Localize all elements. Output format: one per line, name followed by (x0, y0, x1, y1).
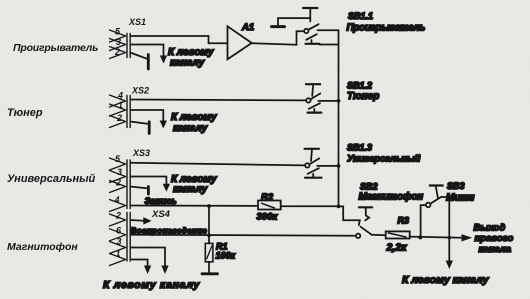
wire XS4 pin6 (Воспроизведение line) to SB2 (130, 234, 356, 237)
svg-text:R2: R2 (261, 192, 274, 203)
wire R1 bottom (208, 262, 210, 273)
svg-text:4: 4 (117, 91, 123, 101)
svg-text:2: 2 (115, 211, 121, 221)
node label К левому каналу (XS1) (168, 47, 214, 69)
wire SB3 arm to left-channel drop (442, 197, 453, 268)
svg-text:4: 4 (114, 195, 120, 205)
svg-text:К левому: К левому (168, 47, 214, 58)
svg-text:XS2: XS2 (131, 86, 149, 96)
node label Воспроизведение (131, 227, 208, 236)
value 2,2к (386, 242, 408, 254)
value 100к (216, 251, 236, 261)
node label Тюнер (SB1.2) (347, 91, 379, 102)
svg-text:SB3: SB3 (447, 181, 465, 191)
connector XS3 (110, 158, 131, 212)
pin 2 (XS3) (115, 178, 121, 188)
svg-text:Выход: Выход (474, 223, 506, 234)
pin 5 (XS3) (115, 154, 121, 164)
connector XS4 (110, 213, 131, 266)
wire R3 to output arrow (410, 235, 471, 241)
pin 2 (XS1) (114, 47, 120, 57)
switch SB3 (426, 186, 443, 208)
node label Магнитофон (7, 241, 78, 253)
svg-text:SB1.1: SB1.1 (348, 11, 373, 21)
svg-text:К левому каналу: К левому каналу (103, 279, 200, 291)
pin 2 (XS4) (115, 211, 121, 221)
switch SB1.1 (303, 8, 320, 44)
resistor R3 (386, 231, 410, 238)
svg-text:100к: 100к (216, 251, 236, 261)
svg-text:Универсальный: Универсальный (347, 154, 421, 165)
svg-text:каналу: каналу (173, 123, 208, 134)
svg-text:2: 2 (115, 178, 121, 188)
wire R2 to bus junction (281, 205, 339, 207)
node label К левому каналу (XS4) (103, 279, 200, 291)
svg-text:SB1.3: SB1.3 (347, 143, 372, 153)
svg-text:Проигрыватель: Проигрыватель (13, 42, 98, 54)
svg-text:R3: R3 (398, 216, 410, 226)
svg-text:К левому: К левому (171, 112, 217, 123)
svg-text:XS3: XS3 (132, 148, 150, 158)
node junction (bus/Запись) (337, 205, 341, 209)
svg-text:каналу: каналу (170, 58, 205, 69)
wire A1 output to SB1.1 (252, 31, 304, 44)
pin 1 (XS2) (118, 100, 123, 110)
switch label SB2 (360, 182, 378, 192)
wire bus to SB2 upper contact (339, 206, 361, 225)
svg-text:SB2: SB2 (360, 182, 378, 192)
value 390к (257, 212, 279, 223)
node junction (Запись/R1) (207, 204, 211, 208)
svg-text:Магнитофон: Магнитофон (7, 241, 78, 253)
connector label XS4 (151, 209, 171, 220)
node junction (Воспроизведение/R1) (207, 233, 211, 237)
pin 4 (XS2) (117, 91, 123, 101)
switch SB2 (356, 207, 372, 238)
ground (chassis XS2) (148, 122, 151, 134)
wire SB1.1 output (318, 30, 339, 44)
label R2 (261, 192, 274, 203)
svg-text:3: 3 (116, 37, 121, 47)
ground (R1) (202, 272, 218, 275)
wire XS4 pin2 arrow (130, 218, 150, 224)
node label Запись (145, 196, 177, 206)
svg-text:Тюнер: Тюнер (7, 107, 43, 119)
connector label XS3 (132, 148, 150, 158)
node label Универсальный (SB1.3) (347, 154, 421, 165)
label R3 (398, 216, 410, 226)
wire XS2 pin2 to chassis (130, 122, 147, 124)
node junction (bus/SB1.2) (337, 99, 341, 103)
pin 6 (XS4) (116, 226, 122, 236)
pin 3 (XS1) (116, 37, 121, 47)
wire bus (switch outputs) (338, 30, 340, 206)
svg-text:Тюнер: Тюнер (347, 91, 379, 102)
wire XS4 pin1 to left channel (130, 260, 150, 273)
switch label SB1.1 (348, 11, 373, 21)
wire R1 top (208, 206, 210, 243)
connector label XS1 (128, 17, 146, 27)
label R1 (216, 242, 228, 252)
node label Проигрыватель (13, 42, 98, 54)
node label Проигрыватель (SB1.1) (347, 23, 426, 34)
resistor R1 (205, 243, 213, 261)
wire SB1.2 output (318, 100, 338, 102)
pin 3 (XS3) (117, 167, 122, 177)
node label Тюнер (7, 107, 43, 119)
pin 2 (XS2) (116, 113, 122, 123)
node label К левому каналу (XS3) (171, 174, 217, 195)
wire XS3 pin3 to left channel (130, 177, 169, 191)
svg-text:А1: А1 (241, 22, 254, 33)
pin 4 (XS3) (114, 195, 120, 205)
wire XS2 pin4 to SB1.2 (130, 99, 306, 102)
wire XS1 pin5 to A1 input (130, 36, 227, 43)
wire SB3 input riser (421, 205, 426, 238)
switch label SB1.3 (347, 143, 372, 153)
svg-text:Запись: Запись (145, 196, 177, 206)
ground (SB1.1) (272, 18, 310, 27)
node junction (bus/SB1.3) (337, 164, 341, 168)
svg-text:2: 2 (116, 113, 122, 123)
node label Микш (446, 193, 475, 204)
resistor R2 (258, 201, 281, 210)
svg-text:SB1.2: SB1.2 (347, 81, 372, 91)
svg-text:XS1: XS1 (128, 17, 146, 27)
wire SB2 output to R3 (371, 234, 385, 236)
pin 3 (XS4) (117, 237, 122, 247)
svg-text:2: 2 (114, 47, 120, 57)
node label К левому каналу (XS2) (171, 112, 217, 134)
svg-text:К левому каналу: К левому каналу (402, 274, 490, 286)
connector XS1 (110, 30, 131, 59)
node label Универсальный (7, 173, 96, 185)
pin 1 (XS4) (116, 249, 121, 259)
svg-text:XS4: XS4 (151, 209, 171, 220)
svg-text:1: 1 (118, 100, 123, 110)
node label К левому каналу (output) (402, 274, 490, 286)
ground (chassis XS1) (147, 55, 150, 70)
svg-text:Универсальный: Универсальный (7, 173, 96, 185)
connector XS2 (110, 95, 131, 128)
wire XS3 pin2 to chassis (130, 187, 146, 189)
wire SB1.3 output (317, 165, 338, 167)
svg-text:Магнитофон: Магнитофон (359, 191, 424, 203)
switch label SB1.2 (347, 81, 372, 91)
label A1 (241, 22, 254, 33)
connector label XS2 (131, 86, 149, 96)
svg-text:канала: канала (479, 244, 512, 255)
wire XS1 pin2 to chassis (130, 53, 146, 59)
wire XS2 pin1 to left channel (130, 110, 166, 127)
wire XS3 pin5 to SB1.3 (130, 163, 305, 166)
node label Магнитофон (SB2) (359, 191, 424, 203)
switch SB1.2 (306, 84, 321, 112)
svg-text:правого: правого (475, 233, 514, 244)
ground (chassis XS3) (147, 187, 150, 195)
svg-text:1: 1 (116, 249, 121, 259)
node label Выход правого канала (474, 223, 514, 256)
svg-text:390к: 390к (257, 212, 279, 223)
node junction (output/left drop) (448, 236, 452, 240)
wire XS4 pin3 to left channel (130, 248, 168, 273)
op-amp A1 (228, 26, 252, 59)
svg-text:Микш: Микш (446, 193, 475, 204)
switch label SB3 (447, 181, 465, 191)
svg-text:Проигрыватель: Проигрыватель (347, 23, 426, 34)
pin 5 (XS1) (115, 27, 121, 37)
wire XS3 pin4 (Запись line) to R2 (130, 205, 258, 207)
svg-text:каналу: каналу (173, 184, 208, 195)
node junction (output/SB3 input) (418, 235, 422, 239)
switch SB1.3 (305, 149, 322, 178)
svg-text:3: 3 (117, 237, 122, 247)
wire XS1 pin3 to left channel (130, 45, 166, 63)
svg-text:2,2к: 2,2к (386, 242, 408, 254)
svg-text:3: 3 (117, 167, 122, 177)
